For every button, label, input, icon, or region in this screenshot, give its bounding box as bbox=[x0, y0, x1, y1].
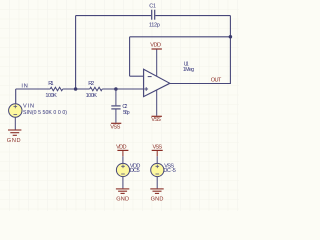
wire: vertical from node A up to C1 wire bbox=[75, 16, 77, 89]
svg-text:C2: C2 bbox=[122, 104, 127, 110]
ground GND under VIN bbox=[8, 130, 21, 135]
capacitor C2 bbox=[111, 89, 120, 123]
svg-text:C1: C1 bbox=[149, 4, 156, 10]
wire: node B to op-amp plus input bbox=[102, 88, 143, 90]
power port VSS under C2 bbox=[111, 122, 121, 124]
wire: R1 to node A to R2 bbox=[63, 88, 90, 90]
svg-text:56p: 56p bbox=[123, 110, 130, 116]
svg-text:GND: GND bbox=[151, 197, 164, 203]
svg-text:VSS: VSS bbox=[153, 144, 163, 150]
wire: main input row from VIN corner to R1 bbox=[16, 88, 51, 90]
wire: source V1 to ground bbox=[122, 177, 124, 189]
svg-text:1Meg: 1Meg bbox=[183, 67, 194, 73]
svg-text:GND: GND bbox=[116, 197, 129, 203]
power port VDD at op-amp bbox=[152, 48, 162, 50]
wire: VIN vertical stem bbox=[15, 89, 17, 104]
resistor R1 bbox=[50, 87, 62, 91]
svg-text:VSS: VSS bbox=[110, 124, 120, 130]
svg-text:100K: 100K bbox=[45, 93, 57, 99]
wire: VDD symbol to source V1 bbox=[122, 156, 124, 163]
svg-text:IN: IN bbox=[21, 83, 27, 89]
svg-text:GND: GND bbox=[7, 138, 21, 144]
svg-text:VDD: VDD bbox=[150, 43, 161, 49]
svg-text:VIN: VIN bbox=[23, 103, 34, 109]
op-amp U1 bbox=[144, 69, 170, 96]
wire: VIN to ground bbox=[14, 117, 16, 129]
wire: C1 top wire left segment bbox=[76, 15, 151, 17]
wire: output from op-amp apex to right vertical bbox=[170, 83, 231, 85]
op-amp plus mark bbox=[144, 87, 148, 91]
capacitor C1 bbox=[152, 10, 155, 20]
wire: C1 top wire right segment bbox=[155, 15, 230, 17]
wire: feedback rectangle left vertical bbox=[129, 37, 131, 76]
source V1 (VDD supply) bbox=[116, 163, 129, 176]
wire: op-amp V- stem bbox=[156, 90, 158, 116]
svg-text:R2: R2 bbox=[88, 81, 94, 87]
wire: op-amp V+ stem bbox=[156, 49, 158, 76]
node B junction dot bbox=[114, 87, 118, 91]
wire: feedback rectangle top bbox=[130, 36, 231, 38]
wire: source V2 to ground bbox=[156, 177, 158, 189]
source VIN bbox=[9, 104, 22, 117]
svg-text:SIN(0 5 50K 0 0 0): SIN(0 5 50K 0 0 0) bbox=[23, 110, 67, 116]
svg-text:OUT: OUT bbox=[211, 77, 222, 83]
wire: VSS symbol to source V2 bbox=[156, 156, 158, 163]
wire: right vertical from C1 wire down to output bbox=[229, 16, 231, 84]
svg-text:112p: 112p bbox=[149, 23, 160, 29]
ground GND under V2 bbox=[150, 189, 163, 194]
svg-text:R1: R1 bbox=[48, 81, 53, 87]
power port VSS at op-amp bbox=[152, 115, 162, 117]
node: feedback tap junction dot bbox=[229, 35, 233, 39]
svg-text:DC -5: DC -5 bbox=[163, 168, 175, 174]
node A junction dot bbox=[74, 87, 78, 91]
svg-text:DC 5: DC 5 bbox=[130, 168, 140, 174]
wire: feedback into inverting input bbox=[130, 75, 144, 77]
op-amp minus mark bbox=[148, 76, 152, 78]
source V2 (VSS supply) bbox=[151, 163, 164, 176]
svg-text:VDD: VDD bbox=[116, 144, 126, 150]
resistor R2 bbox=[90, 87, 102, 91]
svg-text:100K: 100K bbox=[86, 93, 98, 99]
ground GND under V1 bbox=[116, 189, 129, 194]
svg-text:VSS: VSS bbox=[151, 117, 161, 123]
